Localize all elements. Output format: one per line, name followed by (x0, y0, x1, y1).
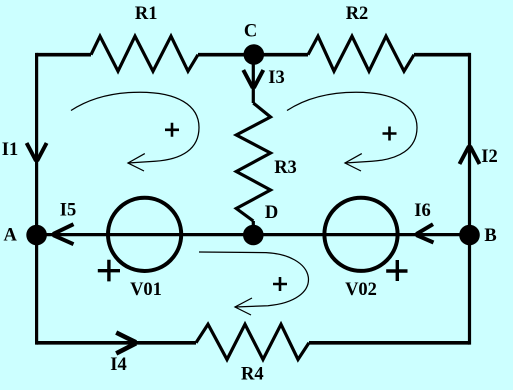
voltage source V01 (108, 198, 181, 271)
wire R3 to node D (252, 221, 255, 235)
plus sign of V02 (386, 260, 407, 281)
wire right side (top corner to bottom corner) (468, 53, 471, 345)
current arrow I4 (right, on bottom wire) (116, 333, 136, 354)
plus sign mesh right (383, 127, 397, 141)
mesh loop arrow left (71, 92, 199, 163)
resistor R3 (236, 103, 270, 221)
wire bottom-left (corner to R4) (37, 341, 196, 345)
mesh loop arrow bottom (199, 252, 308, 307)
wire left side (top corner to bottom corner) (35, 53, 38, 345)
svg-text:I1: I1 (2, 140, 18, 160)
current arrow I2 (up, on right wire) (460, 146, 480, 164)
current arrow I1 (down, on left wire) (27, 143, 47, 161)
node B (459, 225, 480, 246)
node C (244, 44, 265, 65)
wire top-right (R2 to right corner) (414, 53, 470, 57)
svg-text:R3: R3 (274, 158, 297, 178)
wire node C down to R3 (252, 55, 255, 103)
svg-text:A: A (4, 226, 18, 246)
wire middle horizontal A to B (37, 233, 470, 236)
resistor R4 (196, 324, 309, 359)
svg-text:I2: I2 (481, 147, 497, 167)
svg-text:I5: I5 (60, 201, 76, 221)
node A (26, 225, 47, 246)
svg-text:R1: R1 (135, 4, 158, 24)
svg-text:C: C (244, 21, 257, 41)
resistor R2 (308, 36, 414, 71)
svg-text:V01: V01 (130, 280, 162, 300)
mesh loop arrow right (287, 92, 417, 163)
svg-text:D: D (265, 203, 278, 223)
plus sign mesh left (165, 123, 179, 137)
wire top-left (node A side to R1) (37, 53, 91, 57)
plus sign mesh bottom (273, 277, 287, 291)
wire top-middle (R1 to R2 through node C) (198, 53, 308, 57)
node D (243, 225, 264, 246)
svg-text:R4: R4 (241, 364, 264, 384)
current arrow I5 (left, toward node A) (53, 224, 74, 244)
svg-text:I6: I6 (414, 201, 430, 221)
svg-text:V02: V02 (345, 280, 377, 300)
plus sign of V01 (98, 260, 120, 282)
current arrow I3 (down, below node C) (243, 70, 263, 88)
resistor R1 (91, 36, 198, 71)
svg-text:I3: I3 (268, 68, 284, 88)
wire bottom-right (R4 to corner) (309, 341, 470, 345)
svg-text:B: B (484, 226, 496, 246)
voltage source V02 (324, 198, 397, 271)
svg-text:I4: I4 (110, 355, 126, 375)
current arrow I6 (left, toward node D) (416, 224, 433, 242)
svg-text:R2: R2 (346, 4, 369, 24)
